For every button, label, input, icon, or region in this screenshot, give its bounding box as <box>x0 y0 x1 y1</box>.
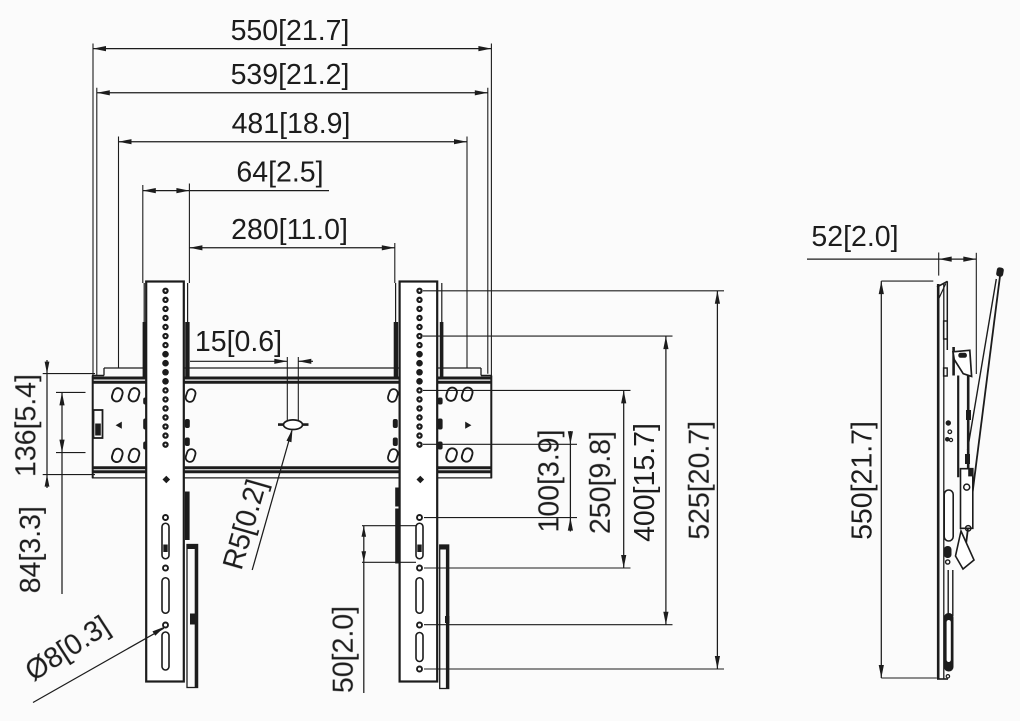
svg-text:50[2.0]: 50[2.0] <box>328 606 360 693</box>
guide tabs beside right rail <box>394 322 444 377</box>
wall plate slot holes beside rails <box>185 388 399 463</box>
right lower slide strip (behind right rail) <box>440 545 450 689</box>
triangle marker left <box>116 422 122 429</box>
diameter label Ø8[0.3] with leader to lower rail hole <box>20 610 165 703</box>
dimension 550[21.7] overall width <box>93 15 491 376</box>
side view hook bracket at top of TV rail <box>953 350 972 376</box>
svg-text:15[0.6]: 15[0.6] <box>195 326 282 358</box>
dimension 100[3.9] <box>533 429 573 532</box>
dimension 481[18.9] <box>119 108 468 369</box>
hole leader lines to right dimension stack <box>423 291 724 669</box>
dimension 64[2.5] rail width <box>143 157 329 284</box>
side view small dots (screws) <box>945 420 953 441</box>
dimension 52[2.0] plate depth, side view <box>807 221 976 374</box>
svg-text:136[5.4]: 136[5.4] <box>10 374 42 477</box>
wall plate (horizontal rail), front view <box>92 368 492 478</box>
svg-text:550[21.7]: 550[21.7] <box>847 421 879 540</box>
dimension 250[9.8] <box>585 390 627 568</box>
side view TV rail profile (vertical) <box>958 376 971 478</box>
radius label R5[0.2] with leader to center slot <box>217 429 292 573</box>
center keyhole slot on plate <box>278 420 309 430</box>
svg-text:539[21.2]: 539[21.2] <box>231 59 350 91</box>
svg-text:84[3.3]: 84[3.3] <box>15 506 47 593</box>
svg-text:64[2.5]: 64[2.5] <box>236 157 323 189</box>
spring clip bumps on rail outer edges <box>143 398 442 450</box>
wall plate slot holes left end <box>111 387 141 463</box>
side view latch mechanism <box>956 469 975 569</box>
dimension 136[5.4] plate height <box>10 360 95 488</box>
guide tabs beside left rail <box>143 322 190 377</box>
dimension 550[21.7] height, side view <box>847 281 937 678</box>
wall plate slot holes right end <box>445 386 474 463</box>
triangle marker right <box>465 422 471 429</box>
dimension 50[2.0] lower slot pitch <box>328 526 416 693</box>
dimension 15[0.6] for center slot <box>190 326 313 421</box>
dimension 400[15.7] <box>629 336 669 625</box>
side view clip blocks on plate front <box>944 321 948 376</box>
svg-text:481[18.9]: 481[18.9] <box>232 108 351 140</box>
dimension 84[3.3] slot row spacing <box>15 392 85 594</box>
strip edge lines above tabs <box>144 283 442 322</box>
square safety-lock hole at plate left end <box>94 410 103 438</box>
svg-text:Ø8[0.3]: Ø8[0.3] <box>20 610 116 688</box>
left TV rail (vertical bracket) <box>146 282 184 682</box>
svg-text:550[21.7]: 550[21.7] <box>231 15 350 47</box>
side view wall plate profile <box>937 281 954 679</box>
side view tilt arm (open position) <box>965 267 1004 552</box>
svg-text:100[3.9]: 100[3.9] <box>533 429 565 532</box>
right TV rail (vertical bracket) <box>400 282 438 682</box>
svg-text:250[9.8]: 250[9.8] <box>585 431 617 534</box>
dimension 525[20.7] <box>684 291 721 669</box>
svg-text:280[11.0]: 280[11.0] <box>231 214 348 246</box>
dimension 280[11.0] between rail slots <box>189 184 394 284</box>
spring clip bumps on rail inner edges <box>185 419 398 446</box>
side view bottom foot <box>944 613 954 678</box>
dimension 539[21.2] <box>97 59 488 376</box>
svg-text:400[15.7]: 400[15.7] <box>629 423 661 542</box>
side view plate slots (lower) <box>944 490 953 564</box>
black edge segment on left rail lower inner edge <box>185 492 190 541</box>
left lower slide strip (behind left rail) <box>187 545 198 688</box>
svg-text:52[2.0]: 52[2.0] <box>811 221 898 253</box>
black edge segments on right rail lower outer edge <box>395 488 400 564</box>
svg-text:525[20.7]: 525[20.7] <box>684 421 716 540</box>
